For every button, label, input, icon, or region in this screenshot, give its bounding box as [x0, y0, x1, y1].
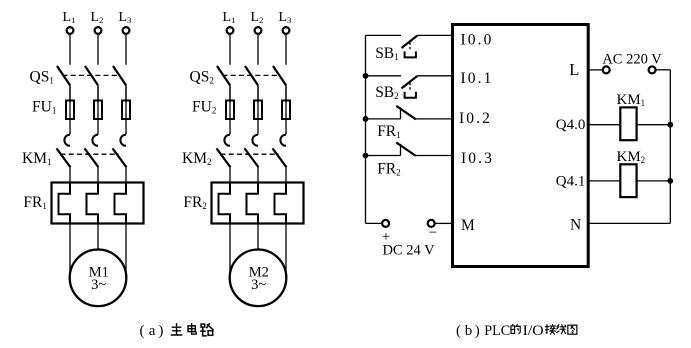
wire FR2 to motor M2 pole 1	[229, 224, 231, 273]
svg-text:KM1: KM1	[22, 150, 51, 167]
thermal relay FR2 box	[212, 183, 304, 224]
contactor KM1 pole 2 arc	[92, 135, 98, 146]
svg-text:−: −	[429, 225, 437, 241]
fuse FU1 pole 2	[94, 101, 102, 120]
labels branch 2	[182, 10, 291, 293]
pushbutton SB1 blade	[402, 36, 418, 48]
svg-text:I0.0: I0.0	[461, 32, 494, 49]
wire L3 to QS1	[125, 34, 127, 65]
KM1 linkage dashed line	[61, 153, 119, 155]
svg-text:FR1: FR1	[377, 123, 400, 140]
thermal relay FR1 box	[52, 183, 144, 224]
svg-text:FU1: FU1	[32, 98, 56, 115]
wire FU2 to KM2 pole 1	[229, 85, 231, 134]
FR1 contact blade	[396, 106, 416, 119]
terminal L1	[67, 27, 74, 34]
KM2 linkage dashed line	[221, 153, 279, 155]
svg-text:DC 24 V: DC 24 V	[382, 243, 435, 259]
wire FR2 to motor M2 pole 3	[285, 224, 287, 273]
wire FU2 to KM2 pole 2	[257, 85, 259, 134]
svg-text:I0.2: I0.2	[459, 110, 492, 127]
svg-text:KM2: KM2	[182, 150, 211, 167]
svg-text:L1: L1	[63, 10, 76, 25]
svg-text:L1: L1	[223, 10, 236, 25]
svg-text:I0.3: I0.3	[461, 150, 494, 167]
wire L1 to QS1	[69, 34, 71, 65]
contactor KM2 pole 3 blade	[273, 148, 287, 167]
FR2 contact blade	[396, 143, 416, 156]
wire N to right bus	[587, 222, 670, 224]
contactor KM2 pole 1 arc	[224, 135, 230, 146]
pushbutton SB2 blade	[402, 76, 418, 88]
switch QS2 pole 3 blade	[273, 66, 286, 85]
switch QS2 pole 2 blade	[245, 66, 258, 85]
terminal L3 (branch 2)	[283, 27, 290, 34]
terminal L2	[95, 27, 102, 34]
QS1 linkage dashed line	[63, 74, 120, 76]
labels right section	[375, 32, 662, 259]
svg-text:KM2: KM2	[617, 149, 646, 165]
svg-text:L3: L3	[279, 10, 292, 25]
terminal L1 (branch 2)	[227, 27, 234, 34]
svg-text:SB2: SB2	[375, 84, 398, 101]
svg-text:L: L	[569, 60, 579, 79]
wire bus to FR2 contact	[366, 155, 401, 157]
FR2 heater element pole 2	[247, 183, 259, 224]
FR1 contact stub	[400, 107, 402, 119]
wire L2 to QS1	[97, 34, 99, 65]
switch QS1 pole 3 blade	[113, 66, 126, 85]
caption (a) glyph 电	[188, 324, 196, 334]
node dot bus-SB2	[363, 73, 369, 79]
contactor KM2 pole 2 blade	[245, 148, 259, 167]
wire SB2 to I0.1	[417, 75, 451, 77]
FR1 heater element pole 2	[87, 183, 99, 224]
wire FR1 to motor M1 pole 1	[69, 224, 71, 273]
wire AC source to right bus	[656, 69, 671, 71]
svg-text:(: (	[140, 323, 145, 339]
svg-text:AC 220 V: AC 220 V	[602, 51, 662, 67]
wire SB1 to I0.0	[417, 34, 451, 36]
DC supply + terminal	[382, 220, 389, 227]
caption (b) glyph 线	[557, 325, 566, 334]
contactor KM1 pole 1 blade	[57, 148, 71, 167]
wire bus to DC+ terminal	[366, 222, 383, 224]
wire FR1 to I0.2	[416, 118, 451, 120]
contactor KM1 pole 2 blade	[85, 148, 99, 167]
svg-text:L2: L2	[91, 10, 104, 25]
wire Q4.0 to KM1 coil	[587, 124, 620, 126]
caption (b) glyph 图	[568, 325, 577, 334]
wire L3 to QS2	[285, 34, 287, 65]
svg-text:b: b	[465, 323, 473, 339]
QS2 linkage dashed line	[223, 74, 280, 76]
wire QS2 to FU2 pole 2	[257, 85, 259, 100]
wire bus to SB1	[366, 34, 402, 36]
wire L to AC source	[587, 69, 602, 71]
wire FU2 to KM2 pole 3	[285, 85, 287, 134]
svg-text:SB1: SB1	[375, 45, 398, 62]
caption (b) glyph 的	[511, 325, 520, 334]
coil KM2	[620, 164, 636, 197]
FR1 heater element pole 3	[115, 183, 127, 224]
SB2 actuator stem	[409, 83, 411, 92]
wire FR2 to I0.3	[416, 155, 451, 157]
node dot bus-FR1	[363, 116, 369, 122]
wire KM2 coil to right bus	[637, 180, 671, 182]
contactor KM2 pole 3 arc	[280, 135, 286, 146]
wire FU1 to KM1 pole 2	[97, 85, 99, 134]
terminal L3	[123, 27, 130, 34]
svg-text:FR2: FR2	[377, 160, 400, 177]
wire KM1 to FR1 pole 2	[97, 167, 99, 182]
caption (a) glyph 路	[201, 324, 213, 336]
wire L2 to QS2	[257, 34, 259, 65]
wire KM1 to FR1 pole 3	[125, 167, 127, 182]
fuse FU2 pole 3	[282, 101, 290, 120]
contactor KM1 pole 3 arc	[120, 135, 126, 146]
svg-text:L3: L3	[119, 10, 132, 25]
svg-text:QS1: QS1	[30, 68, 54, 85]
svg-text:): )	[158, 323, 163, 339]
svg-text:KM1: KM1	[617, 92, 646, 108]
SB1 actuator stem	[409, 43, 411, 52]
FR2 heater element pole 1	[219, 183, 231, 224]
coil KM1	[620, 107, 636, 140]
svg-text:Q4.1: Q4.1	[556, 173, 586, 189]
switch QS1 pole 1 blade	[57, 66, 70, 85]
wire FU1 to KM1 pole 3	[125, 85, 127, 134]
DC supply - terminal	[428, 220, 435, 227]
caption (a) glyph 主	[171, 324, 181, 335]
wire FR2 to motor M2 pole 2	[257, 224, 259, 250]
svg-text:): )	[475, 323, 480, 339]
wire QS2 to FU2 pole 3	[285, 85, 287, 100]
wire KM2 to FR2 pole 3	[285, 167, 287, 182]
fuse FU1 pole 3	[122, 101, 130, 120]
node dot KM1-right bus	[667, 122, 673, 128]
switch QS2 pole 1 blade	[217, 66, 230, 85]
wire QS1 to FU1 pole 1	[69, 85, 71, 100]
wire FU1 to KM1 pole 1	[69, 85, 71, 134]
wire QS1 to FU1 pole 2	[97, 85, 99, 100]
FR2 contact stub	[400, 144, 402, 156]
wire bus to SB2	[366, 75, 402, 77]
svg-text:I0.1: I0.1	[461, 70, 494, 87]
node dot bus-FR2	[363, 153, 369, 159]
wire QS2 to FU2 pole 1	[229, 85, 231, 100]
right bus wire	[669, 70, 671, 224]
svg-text:Q4.0: Q4.0	[556, 117, 586, 133]
caption (b) glyph 接	[545, 325, 555, 335]
svg-text:3~: 3~	[91, 277, 106, 293]
wire FR1 to motor M1 pole 2	[97, 224, 99, 250]
contactor KM1 pole 1 arc	[64, 135, 70, 146]
wire KM1 coil to right bus	[637, 124, 671, 126]
wire DC- to M	[435, 222, 451, 224]
svg-text:(: (	[456, 323, 461, 339]
motor M1 circle	[70, 249, 127, 306]
svg-text:FR2: FR2	[183, 194, 206, 211]
FR2 heater element pole 3	[275, 183, 287, 224]
svg-text:3~: 3~	[251, 277, 266, 293]
motor M2 circle	[230, 249, 287, 306]
wire KM1 to FR1 pole 1	[69, 167, 71, 182]
PLC box	[453, 25, 589, 267]
contactor KM1 pole 3 blade	[113, 148, 127, 167]
svg-text:QS2: QS2	[190, 68, 214, 85]
SB2 actuator head	[405, 92, 416, 98]
fuse FU1 pole 1	[66, 101, 74, 120]
SB1 actuator head	[405, 51, 416, 57]
wire QS1 to FU1 pole 3	[125, 85, 127, 100]
AC source terminal 2	[649, 66, 656, 73]
svg-text:FU2: FU2	[192, 98, 216, 115]
wire KM2 to FR2 pole 2	[257, 167, 259, 182]
wire FR1 to motor M1 pole 3	[125, 224, 127, 273]
svg-text:L2: L2	[251, 10, 264, 25]
terminal L2 (branch 2)	[255, 27, 262, 34]
AC source terminal 1	[603, 66, 610, 73]
svg-text:M: M	[461, 217, 475, 234]
svg-text:I/O: I/O	[523, 323, 544, 339]
fuse FU2 pole 2	[254, 101, 262, 120]
svg-text:FR1: FR1	[23, 194, 46, 211]
wire L1 to QS2	[229, 34, 231, 65]
node dot KM2-right bus	[667, 178, 673, 184]
svg-text:a: a	[149, 323, 156, 339]
contactor KM2 pole 2 arc	[252, 135, 258, 146]
input bus wire (left vertical)	[365, 35, 367, 223]
fuse FU2 pole 1	[226, 101, 234, 120]
contactor KM2 pole 1 blade	[217, 148, 231, 167]
wire KM2 to FR2 pole 1	[229, 167, 231, 182]
wire Q4.1 to KM2 coil	[587, 180, 620, 182]
svg-text:PLC: PLC	[484, 323, 510, 339]
switch QS1 pole 2 blade	[85, 66, 98, 85]
wire bus to FR1 contact	[366, 118, 401, 120]
labels branch 1	[22, 10, 131, 293]
FR1 heater element pole 1	[59, 183, 71, 224]
svg-text:N: N	[570, 217, 581, 234]
